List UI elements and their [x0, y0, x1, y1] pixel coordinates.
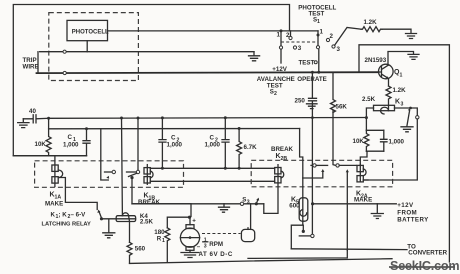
svg-text:3: 3 — [204, 243, 207, 249]
svg-text:MAKE: MAKE — [45, 201, 63, 208]
svg-text:1.2K: 1.2K — [364, 19, 378, 26]
svg-text:1: 1 — [277, 31, 281, 38]
svg-text:C: C — [68, 134, 73, 141]
svg-text:1: 1 — [317, 19, 320, 25]
svg-text:560: 560 — [135, 245, 146, 252]
svg-text:PHOTOCELL: PHOTOCELL — [72, 29, 109, 35]
svg-text:2B: 2B — [281, 156, 288, 162]
svg-text:BREAK: BREAK — [138, 199, 161, 206]
svg-text:LATCHING RELAY: LATCHING RELAY — [42, 221, 91, 227]
svg-text:– 6-V: – 6-V — [71, 211, 87, 218]
svg-text:FROM: FROM — [397, 209, 417, 216]
svg-text:10K: 10K — [353, 138, 365, 145]
svg-text:AT 6V D-C: AT 6V D-C — [199, 251, 233, 258]
svg-text:K: K — [395, 99, 400, 106]
svg-text:3: 3 — [298, 45, 302, 52]
svg-text:40: 40 — [29, 108, 36, 115]
svg-text:3: 3 — [337, 46, 341, 53]
svg-text:1,000: 1,000 — [389, 138, 405, 145]
svg-text:–: – — [197, 243, 201, 250]
svg-text:56K: 56K — [336, 104, 348, 111]
svg-text:+12V: +12V — [272, 66, 287, 73]
svg-text:1,000: 1,000 — [167, 141, 183, 148]
svg-text:1: 1 — [320, 29, 324, 36]
svg-text:2: 2 — [330, 33, 334, 40]
svg-text:3: 3 — [247, 200, 250, 206]
svg-text:1: 1 — [400, 73, 403, 79]
svg-text:MAKE: MAKE — [354, 197, 372, 204]
svg-text:1,000: 1,000 — [205, 141, 221, 148]
svg-text:6.7K: 6.7K — [244, 144, 258, 151]
svg-text:1,000: 1,000 — [63, 142, 79, 149]
svg-text:WIRE: WIRE — [23, 63, 39, 70]
svg-text:CONVERTER: CONVERTER — [408, 250, 447, 257]
svg-text:+12V: +12V — [397, 202, 414, 209]
svg-text:1: 1 — [162, 238, 165, 244]
svg-text:1A: 1A — [55, 195, 62, 201]
svg-text:2: 2 — [274, 91, 277, 97]
svg-text:BREAK: BREAK — [271, 146, 294, 153]
svg-text:; K: ; K — [59, 211, 68, 218]
svg-text:2N1593: 2N1593 — [365, 57, 387, 64]
svg-text:1.2K: 1.2K — [393, 87, 407, 94]
svg-text:10K: 10K — [35, 141, 47, 148]
svg-text:3: 3 — [401, 102, 404, 108]
svg-text:2.5K: 2.5K — [140, 218, 154, 225]
svg-text:250: 250 — [295, 98, 306, 105]
svg-text:TEST: TEST — [299, 60, 315, 67]
svg-text:RPM: RPM — [209, 241, 223, 248]
svg-text:2.5K: 2.5K — [362, 96, 376, 103]
svg-text:BATTERY: BATTERY — [397, 216, 429, 223]
svg-text:+: + — [192, 217, 196, 224]
